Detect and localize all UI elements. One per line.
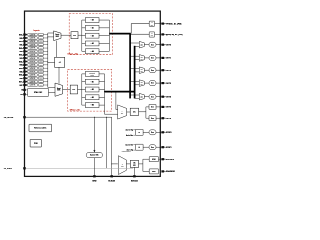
wire	[43, 54, 47, 56]
driver Q0	[149, 42, 156, 47]
svg-text:LVDS RX: LVDS RX	[30, 54, 36, 56]
input term T5	[38, 50, 43, 53]
wire bus2 to outmux2	[135, 71, 140, 73]
divider D21	[82, 81, 86, 83]
input term T15	[38, 84, 43, 87]
bus clock2	[134, 46, 136, 99]
svg-text:DPLL1 + Div: DPLL1 + Div	[68, 54, 78, 56]
input buffer B12	[26, 74, 28, 76]
input term T14	[38, 80, 43, 83]
input buffer B3	[26, 44, 28, 46]
svg-text:STAT0: STAT0	[166, 131, 172, 134]
svg-text:÷2: ÷2	[59, 61, 61, 64]
wire	[43, 50, 47, 52]
chip boundary U1	[25, 11, 161, 176]
wire	[43, 74, 47, 76]
divider D20	[82, 73, 86, 75]
mux M6 serial sel shape	[118, 156, 126, 175]
svg-text:TERM: TERM	[39, 48, 42, 50]
svg-text:IN2-: IN2-	[19, 51, 23, 53]
svg-text:MUX: MUX	[56, 36, 59, 38]
input buffer B7	[26, 57, 28, 59]
svg-text:OUT0: OUT0	[166, 45, 171, 47]
wire	[159, 158, 162, 160]
wire bus1 to outmux2	[130, 68, 139, 70]
pin OUT0	[161, 44, 164, 46]
wire	[43, 81, 47, 83]
divider R-DIV	[55, 57, 65, 67]
svg-text:SEL: SEL	[141, 71, 143, 73]
input buffer B8	[26, 61, 28, 63]
block GPIO ctl	[149, 32, 154, 37]
block POR	[30, 139, 41, 147]
svg-text:LVDS RX: LVDS RX	[30, 48, 36, 50]
block SCL buffer	[149, 157, 158, 162]
wire pll2 out	[78, 89, 82, 91]
svg-text:LVDS RX: LVDS RX	[30, 71, 36, 73]
svg-text:LVDS RX: LVDS RX	[30, 44, 36, 46]
svg-text:IN3-: IN3-	[19, 58, 23, 60]
wire input collector	[47, 35, 49, 88]
wire drop B	[111, 117, 113, 175]
wire riser to det	[130, 24, 132, 34]
svg-text:SDO/A1: SDO/A1	[131, 179, 138, 182]
wire	[144, 57, 149, 59]
input buffer B0	[26, 34, 28, 36]
wire stack1 right bus	[108, 20, 110, 51]
mux U2 input selector 1	[54, 31, 61, 41]
divider D13	[82, 42, 86, 44]
wire	[99, 96, 105, 98]
input buffer B5	[26, 51, 28, 53]
wire	[43, 64, 47, 66]
input buffer B9	[26, 64, 28, 66]
wire	[126, 163, 130, 165]
wire	[156, 69, 161, 71]
driver Q6	[149, 116, 156, 121]
svg-text:TERM: TERM	[39, 51, 42, 53]
divider D24	[82, 104, 86, 106]
divider D23	[82, 96, 86, 98]
wire tap to mux2	[48, 86, 55, 88]
input term T11	[38, 70, 43, 73]
wire bus1 to outmux0	[130, 42, 139, 44]
svg-text:TERM: TERM	[39, 78, 42, 80]
svg-text:IN5-: IN5-	[19, 71, 23, 73]
wire osc to pin	[93, 158, 95, 176]
wire bus feed to aux mux	[115, 92, 117, 110]
svg-text:LVDS RX: LVDS RX	[30, 81, 36, 83]
wire	[43, 37, 47, 39]
svg-text:SEL: SEL	[121, 112, 124, 114]
input term T12	[38, 74, 43, 77]
svg-text:TERM: TERM	[39, 34, 42, 36]
svg-text:LVDS RX: LVDS RX	[30, 34, 36, 36]
divider D11	[82, 27, 86, 29]
input buffer B11	[26, 71, 28, 73]
wire	[99, 19, 109, 21]
oscillator system OSC	[86, 152, 102, 157]
pin SCL	[161, 158, 164, 160]
wire	[143, 146, 149, 148]
wire	[156, 82, 161, 84]
wire	[156, 96, 161, 98]
svg-text:SEL: SEL	[141, 97, 143, 99]
svg-text:TERM: TERM	[39, 41, 42, 43]
mux M5 aux sel	[118, 105, 127, 119]
mux M4 out sel	[139, 93, 144, 100]
svg-text:Div: Div	[133, 111, 136, 113]
wire dpll2 trunk	[105, 91, 135, 93]
svg-text:LVDS RX: LVDS RX	[30, 38, 36, 40]
wire	[155, 33, 162, 35]
wire	[144, 44, 149, 46]
pin TP/DAC	[161, 23, 164, 25]
input buffer B14	[26, 81, 28, 83]
svg-text:IN6-: IN6-	[19, 78, 23, 80]
wire bus2 to outmux3	[135, 84, 140, 86]
input buffer B15	[26, 84, 28, 86]
svg-text:TERM: TERM	[39, 54, 42, 56]
block serial interface	[130, 160, 138, 167]
input buffer B13	[26, 77, 28, 79]
wire tap to mux1	[48, 32, 54, 34]
wire	[43, 77, 47, 79]
svg-text:LVDS RX: LVDS RX	[30, 85, 36, 87]
svg-text:LVDS RX: LVDS RX	[30, 68, 36, 70]
wire	[156, 146, 161, 148]
wire stack2 right bus	[104, 74, 106, 105]
svg-text:TERM: TERM	[39, 44, 42, 46]
svg-text:SEL: SEL	[141, 58, 143, 60]
mux M3 out sel	[139, 80, 144, 87]
wire	[99, 35, 109, 37]
svg-text:SDIO: SDIO	[152, 171, 155, 173]
input buffer B10	[26, 67, 28, 69]
wire stack2 left bus	[81, 74, 83, 105]
arrowhead	[94, 150, 96, 152]
svg-text:VD_XPLL6: VD_XPLL6	[4, 117, 14, 119]
block reference LDOs	[29, 124, 52, 132]
svg-text:LVDS RX: LVDS RX	[30, 75, 36, 77]
wire drop A	[106, 117, 108, 168]
pin SDA	[161, 170, 164, 172]
pll U5 DPLL2	[70, 85, 77, 94]
wire serial pin drop	[133, 167, 135, 175]
driver status 0	[149, 130, 156, 135]
wire divider to mux2	[58, 67, 60, 84]
svg-text:TERM: TERM	[39, 58, 42, 60]
block TDC	[149, 21, 154, 26]
svg-text:I2C: I2C	[133, 162, 135, 164]
svg-text:SCL/SCK: SCL/SCK	[166, 159, 175, 161]
wire	[43, 60, 47, 62]
dashed block DPLL1	[69, 14, 112, 55]
wire	[43, 34, 47, 36]
wire	[99, 104, 105, 106]
wire bus1 to outmux1	[130, 55, 139, 57]
input term T9	[38, 64, 43, 66]
wire tap to divider	[48, 61, 55, 63]
mux M0 out sel	[139, 41, 144, 48]
wire bus1 to outmux4	[130, 94, 139, 96]
svg-text:SDA/SDIO: SDA/SDIO	[166, 170, 175, 173]
svg-text:TERM: TERM	[39, 61, 42, 63]
wire to serial mux	[112, 163, 118, 165]
pll U4 DPLL1	[71, 32, 78, 39]
svg-text:LVDS RX: LVDS RX	[30, 41, 36, 43]
wire	[43, 84, 47, 86]
svg-text:MUX: MUX	[57, 90, 60, 92]
svg-text:LVDS RX: LVDS RX	[30, 64, 36, 66]
wire	[99, 73, 105, 75]
wire xtal to mux2	[49, 91, 56, 93]
wire	[99, 89, 105, 91]
wire	[143, 131, 149, 133]
crystal oscillator XO1	[28, 88, 49, 96]
wire	[99, 27, 109, 29]
svg-text:Inputs: Inputs	[33, 29, 40, 32]
wire stack1 left bus	[81, 20, 83, 51]
wire mux1 to divider	[56, 41, 58, 58]
wire	[43, 47, 47, 49]
wire	[99, 50, 109, 52]
wire mux2 to dpll2	[63, 89, 71, 91]
input term T4	[38, 47, 43, 50]
wire bus2 to outmux1	[135, 59, 140, 61]
svg-text:TERM: TERM	[39, 68, 42, 70]
block SDA buffer	[149, 169, 158, 174]
gate G0	[133, 129, 135, 131]
input term T1	[38, 37, 43, 40]
wire	[43, 44, 47, 46]
wire	[156, 106, 161, 108]
svg-text:TERM: TERM	[39, 85, 42, 87]
divider D12	[82, 35, 86, 37]
input term T8	[38, 60, 43, 63]
wire tap to mux1 b	[48, 36, 54, 38]
input term T13	[38, 77, 43, 80]
svg-text:OUT3: OUT3	[166, 83, 171, 85]
driver status 1	[149, 145, 156, 150]
svg-text:DET: DET	[151, 24, 154, 26]
wire dpll1 trunk	[109, 33, 130, 35]
svg-text:CTL: CTL	[151, 35, 154, 37]
wire	[156, 44, 161, 46]
svg-text:SEL: SEL	[121, 165, 124, 167]
wire serial bracket	[139, 163, 143, 165]
wire	[156, 131, 161, 133]
mux M2 out sel	[139, 67, 144, 74]
gate G1	[133, 144, 135, 146]
input term T0	[38, 33, 43, 36]
pin OUT6	[161, 117, 164, 119]
wire pll1 out	[78, 34, 82, 36]
svg-text:XIN2: XIN2	[92, 180, 96, 182]
svg-text:TERM: TERM	[39, 81, 42, 83]
svg-text:LVDS RX: LVDS RX	[30, 78, 36, 80]
wire	[144, 82, 149, 84]
svg-text:SCS/A0: SCS/A0	[108, 179, 115, 182]
svg-text:LVDS RX: LVDS RX	[30, 61, 36, 63]
svg-text:IN4-: IN4-	[19, 64, 23, 67]
wire aux bracket	[139, 111, 146, 113]
wire	[127, 111, 131, 113]
svg-text:TERM: TERM	[39, 64, 42, 66]
gray supply rail	[26, 167, 133, 169]
pin OUT2	[161, 69, 164, 71]
driver Q3	[149, 81, 156, 86]
svg-text:VL_XGL1: VL_XGL1	[4, 168, 12, 170]
pin OUT3	[161, 82, 164, 84]
svg-text:OUT2: OUT2	[166, 70, 171, 72]
svg-text:IN1-: IN1-	[19, 44, 23, 46]
wire gpio tap	[131, 33, 149, 35]
input buffer B6	[26, 54, 28, 56]
svg-text:OUT1: OUT1	[166, 58, 171, 60]
pin OUT4	[161, 96, 164, 98]
divider D14	[82, 50, 86, 52]
driver Q5	[149, 104, 156, 109]
wire bus2 to outmux0	[135, 45, 140, 47]
mux U3 input selector 2	[55, 83, 63, 96]
pin XIN2	[93, 175, 96, 177]
svg-text:gpio[CM]_B1_[PM]: gpio[CM]_B1_[PM]	[166, 34, 183, 36]
svg-text:OUT5: OUT5	[166, 107, 171, 109]
divider aux	[130, 108, 138, 115]
input buffer B4	[26, 47, 28, 49]
svg-text:TERM: TERM	[39, 71, 42, 73]
svg-text:SEL: SEL	[141, 45, 143, 47]
wire control line	[26, 116, 112, 118]
pin STAT0	[161, 131, 164, 133]
svg-text:OUT6: OUT6	[166, 118, 171, 120]
svg-text:STAT1: STAT1	[166, 146, 172, 149]
input term T2	[38, 40, 43, 43]
driver Q4	[149, 94, 156, 99]
wire osc drop	[93, 117, 95, 152]
mux M1 out sel	[139, 55, 144, 62]
bus clock1	[129, 34, 131, 99]
pin STAT1	[161, 146, 164, 148]
input term T7	[38, 57, 43, 60]
svg-text:LVDS RX: LVDS RX	[30, 51, 36, 53]
wire stack2 feed to aux mux	[104, 105, 106, 114]
wire bus2 to outmux4	[135, 97, 140, 99]
input term T6	[38, 54, 43, 57]
pin gpio	[161, 33, 164, 35]
wire	[155, 23, 162, 25]
wire	[43, 40, 47, 42]
svg-text:SCLK: SCLK	[152, 159, 156, 161]
input term T3	[38, 43, 43, 46]
svg-text:PLL: PLL	[72, 89, 75, 91]
wire bus1 to outmux3	[130, 80, 139, 82]
dashed block DPLL2	[68, 69, 112, 111]
input buffer B1	[26, 37, 28, 39]
wire mux1 to dpll1	[61, 34, 71, 36]
svg-text:LVDS RX: LVDS RX	[30, 58, 36, 60]
svg-text:IN0-: IN0-	[19, 38, 23, 40]
wire	[99, 81, 105, 83]
svg-text:DPLL2 + Div: DPLL2 + Div	[70, 109, 80, 111]
svg-text:IO: IO	[151, 33, 152, 35]
svg-text:IN7-: IN7-	[19, 85, 23, 87]
wire	[144, 96, 149, 98]
svg-text:SEL: SEL	[141, 84, 143, 86]
pin SDO/A1	[133, 175, 136, 177]
input term T10	[38, 67, 43, 70]
svg-text:PLL: PLL	[73, 35, 76, 37]
divider D22	[82, 89, 86, 91]
wire	[156, 57, 161, 59]
wire	[99, 42, 109, 44]
wire	[43, 67, 47, 69]
svg-text:TERM: TERM	[39, 75, 42, 77]
wire	[43, 71, 47, 73]
pin SCS/A0	[110, 175, 113, 177]
svg-text:XTAL OSC: XTAL OSC	[34, 91, 43, 94]
wire	[43, 57, 47, 59]
pin OUT5	[161, 106, 164, 108]
wire	[144, 69, 149, 71]
svg-text:TP/DAC_A1_[PM]: TP/DAC_A1_[PM]	[166, 22, 182, 25]
wire	[156, 117, 161, 119]
divider D10	[82, 19, 86, 21]
input buffer B2	[26, 40, 28, 42]
driver Q1	[149, 55, 156, 60]
svg-text:TERM: TERM	[39, 38, 42, 40]
pin OUT1	[161, 57, 164, 59]
driver Q2	[149, 68, 156, 73]
